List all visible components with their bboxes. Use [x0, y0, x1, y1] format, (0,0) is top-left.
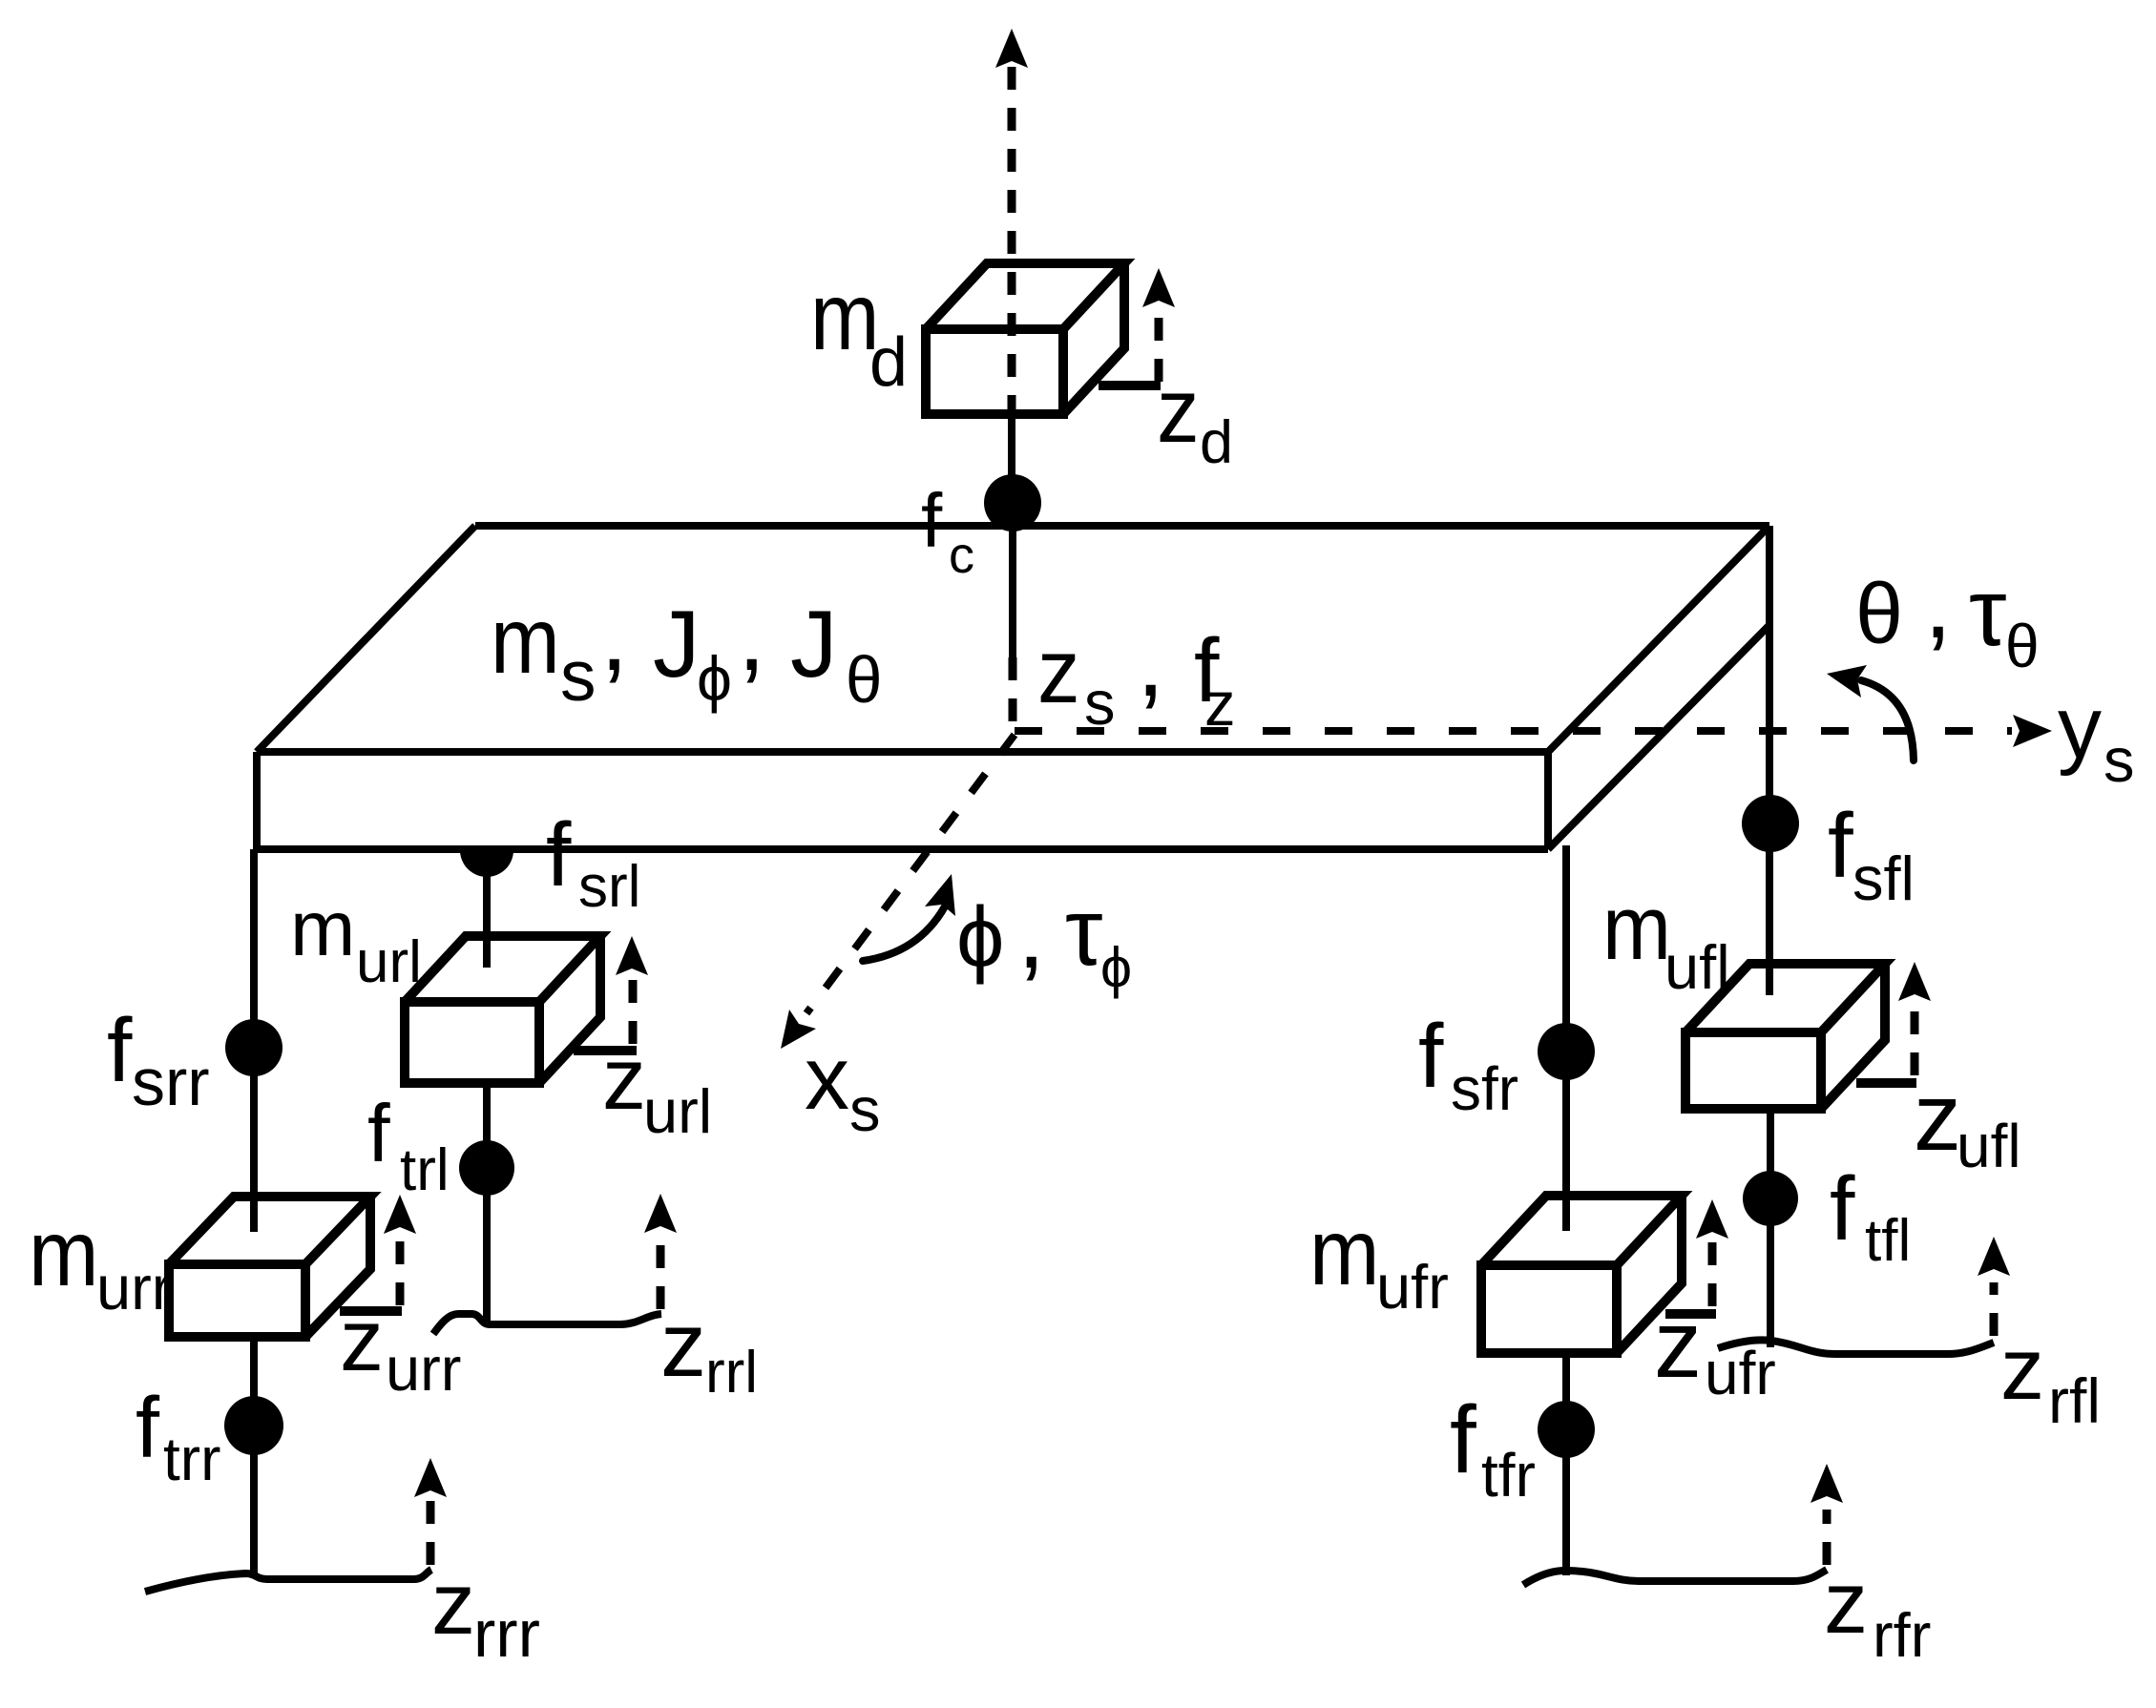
rear-left upper strut wire	[483, 850, 491, 968]
svg-text:rfr: rfr	[1873, 1600, 1931, 1670]
z_d indicator bar	[1099, 381, 1161, 390]
svg-text:d: d	[869, 324, 908, 401]
svg-text:s: s	[560, 635, 597, 716]
svg-text:θ: θ	[846, 643, 882, 717]
z_urr indicator bar	[340, 1306, 402, 1316]
svg-text:d: d	[1200, 409, 1233, 476]
label z_d	[1157, 359, 1233, 476]
wire f_c to cg origin	[1009, 526, 1016, 731]
svg-text:,: ,	[1924, 548, 1952, 659]
svg-text:urr: urr	[386, 1334, 461, 1404]
svg-text:f: f	[921, 478, 943, 563]
z axis arrowhead	[995, 29, 1028, 68]
rear-left lower strut wire	[483, 1083, 491, 1324]
svg-text:sfr: sfr	[1451, 1054, 1518, 1123]
front-right upper strut wire	[1562, 845, 1570, 1231]
road profile rear-left	[433, 1314, 661, 1334]
wire m_d to f_c	[1008, 414, 1015, 526]
svg-text:url: url	[643, 1076, 712, 1146]
label z_url	[602, 1031, 712, 1146]
y_s axis dashed line	[1015, 727, 2012, 735]
y_s axis arrowhead	[2013, 715, 2052, 747]
svg-text:z: z	[1654, 1291, 1702, 1398]
svg-text:rfl: rfl	[2048, 1365, 2101, 1436]
svg-text:m: m	[290, 885, 355, 972]
label f_trl	[367, 1089, 450, 1203]
joint dot f_sfr	[1538, 1023, 1595, 1080]
joint half-dot f_srl	[460, 850, 513, 877]
z_ufr indicator bar	[1665, 1309, 1716, 1319]
svg-text:f: f	[1830, 1158, 1855, 1260]
sprung mass plate	[257, 526, 1769, 849]
z_ufl indicator bar	[1856, 1078, 1916, 1088]
label y_s	[2058, 679, 2135, 795]
label z_rfr	[1824, 1554, 1931, 1670]
label z_rfl	[2000, 1321, 2101, 1436]
label m_ufl	[1602, 877, 1730, 1002]
phi rotation arc	[863, 874, 955, 961]
svg-text:c: c	[949, 527, 974, 584]
svg-text:srl: srl	[578, 854, 640, 920]
joint dot f_srr	[225, 1019, 283, 1076]
svg-text:ϕ: ϕ	[697, 643, 732, 714]
label m_ufr	[1309, 1200, 1449, 1322]
front-right lower strut wire	[1562, 1353, 1570, 1575]
svg-text:f: f	[107, 1000, 133, 1101]
svg-text:f: f	[367, 1089, 390, 1179]
label f_srl	[546, 804, 640, 920]
svg-text:y: y	[2058, 679, 2102, 777]
svg-text:,: ,	[600, 580, 628, 692]
svg-text:f: f	[1418, 1006, 1444, 1107]
svg-text:z: z	[660, 1294, 706, 1396]
z_urr dashed arrow	[384, 1195, 416, 1305]
svg-text:f: f	[546, 804, 572, 906]
label theta , tau_theta	[1855, 548, 2040, 680]
svg-text:s: s	[2104, 725, 2135, 795]
road profile front-left	[1718, 1340, 1994, 1354]
joint dot f_sfl	[1742, 795, 1799, 852]
svg-text:m: m	[1309, 1200, 1379, 1304]
svg-text:m: m	[29, 1201, 98, 1305]
theta rotation arc	[1827, 665, 1914, 760]
svg-text:f: f	[1828, 795, 1853, 897]
svg-text:trl: trl	[400, 1137, 450, 1203]
svg-text:tfl: tfl	[1865, 1208, 1911, 1274]
svg-text:urr: urr	[96, 1253, 172, 1323]
joint dot f_trl	[459, 1140, 514, 1196]
z_ufr dashed arrow	[1696, 1199, 1728, 1306]
svg-text:z: z	[1037, 619, 1080, 722]
mass m_ufr box	[1481, 1196, 1682, 1353]
label z_urr	[340, 1292, 461, 1404]
joint dot f_c	[984, 474, 1041, 531]
svg-text:τ: τ	[1065, 879, 1103, 986]
svg-text:sfl: sfl	[1852, 844, 1915, 913]
svg-text:z: z	[340, 1292, 384, 1389]
z_rfr dashed arrow	[1811, 1464, 1843, 1565]
label f_srr	[107, 1000, 210, 1119]
svg-text:z: z	[431, 1555, 475, 1653]
mass m_urr box	[169, 1197, 370, 1337]
svg-text:θ: θ	[2005, 612, 2040, 680]
svg-text:z: z	[602, 1031, 646, 1128]
svg-text:,: ,	[1137, 606, 1164, 718]
svg-text:J: J	[653, 591, 701, 697]
svg-text:ufr: ufr	[1705, 1339, 1776, 1407]
svg-text:ufl: ufl	[1957, 1112, 2021, 1180]
x_s axis dashed line	[806, 735, 1015, 1013]
svg-text:m: m	[491, 588, 560, 693]
svg-text:ϕ: ϕ	[1100, 936, 1132, 999]
joint dot f_tfl	[1743, 1171, 1798, 1226]
z_d dashed arrow	[1142, 268, 1175, 382]
label m_d	[810, 262, 908, 401]
svg-text:x: x	[805, 1028, 849, 1128]
label f_c	[921, 478, 974, 584]
svg-text:ϕ: ϕ	[956, 890, 1004, 986]
label m_url	[290, 885, 422, 995]
label f_sfr	[1418, 1006, 1518, 1123]
svg-text:m: m	[1602, 877, 1671, 979]
joint dot f_trr	[224, 1396, 283, 1455]
label z_rrl	[660, 1294, 758, 1406]
road profile front-right	[1523, 1570, 1827, 1585]
svg-text:,: ,	[1017, 878, 1045, 989]
svg-text:rrr: rrr	[473, 1596, 540, 1671]
svg-text:trr: trr	[163, 1425, 220, 1493]
z_rrr dashed arrow	[414, 1458, 447, 1565]
svg-text:tfr: tfr	[1481, 1441, 1536, 1510]
svg-text:J: J	[790, 591, 838, 697]
svg-text:θ: θ	[1855, 567, 1903, 662]
label m_s , J_phi , J_theta	[491, 580, 882, 717]
svg-text:url: url	[356, 929, 422, 995]
rear-right upper strut wire	[250, 849, 258, 1232]
rear-right lower strut wire	[250, 1337, 258, 1574]
road profile rear-right	[145, 1570, 431, 1592]
z_ufl dashed arrow	[1898, 962, 1931, 1075]
label z_ufl	[1914, 1064, 2021, 1180]
mass m_ufl box	[1685, 964, 1885, 1109]
z axis vertical dashed line	[1008, 67, 1016, 414]
svg-text:z: z	[2000, 1321, 2044, 1418]
svg-text:,: ,	[738, 580, 765, 692]
label z_rrr	[431, 1555, 540, 1671]
svg-text:ufl: ufl	[1664, 932, 1730, 1002]
label x_s	[805, 1028, 881, 1144]
mass m_d box	[926, 263, 1124, 414]
label f_sfl	[1828, 795, 1915, 913]
label f_trr	[136, 1381, 220, 1493]
front-left strut wire from plate	[1766, 526, 1773, 995]
svg-text:z: z	[1824, 1554, 1868, 1652]
svg-text:rrl: rrl	[705, 1340, 758, 1406]
label f_tfl	[1830, 1158, 1911, 1274]
z_url indicator bar	[574, 1046, 637, 1055]
label z_ufr	[1654, 1291, 1776, 1407]
svg-text:z: z	[1914, 1064, 1961, 1171]
label phi , tau_phi	[956, 878, 1132, 999]
svg-text:srr: srr	[132, 1045, 210, 1119]
svg-text:s: s	[849, 1074, 881, 1144]
svg-text:ufr: ufr	[1376, 1252, 1449, 1322]
z_rrl dashed arrow	[644, 1194, 677, 1309]
mass m_url box	[405, 936, 600, 1083]
svg-text:f: f	[1450, 1386, 1476, 1493]
svg-text:τ: τ	[1969, 559, 2007, 666]
z_rfl dashed arrow	[1978, 1237, 2010, 1336]
label m_urr	[29, 1201, 172, 1323]
x_s axis arrowhead	[781, 1010, 816, 1049]
svg-text:z: z	[1157, 359, 1200, 462]
joint dot f_tfr	[1538, 1401, 1595, 1458]
z_url dashed arrow	[616, 936, 648, 1044]
front-left lower strut wire	[1767, 1109, 1774, 1347]
label f_tfr	[1450, 1386, 1536, 1510]
label z_s , f_z	[1037, 606, 1236, 739]
svg-text:f: f	[136, 1381, 160, 1476]
